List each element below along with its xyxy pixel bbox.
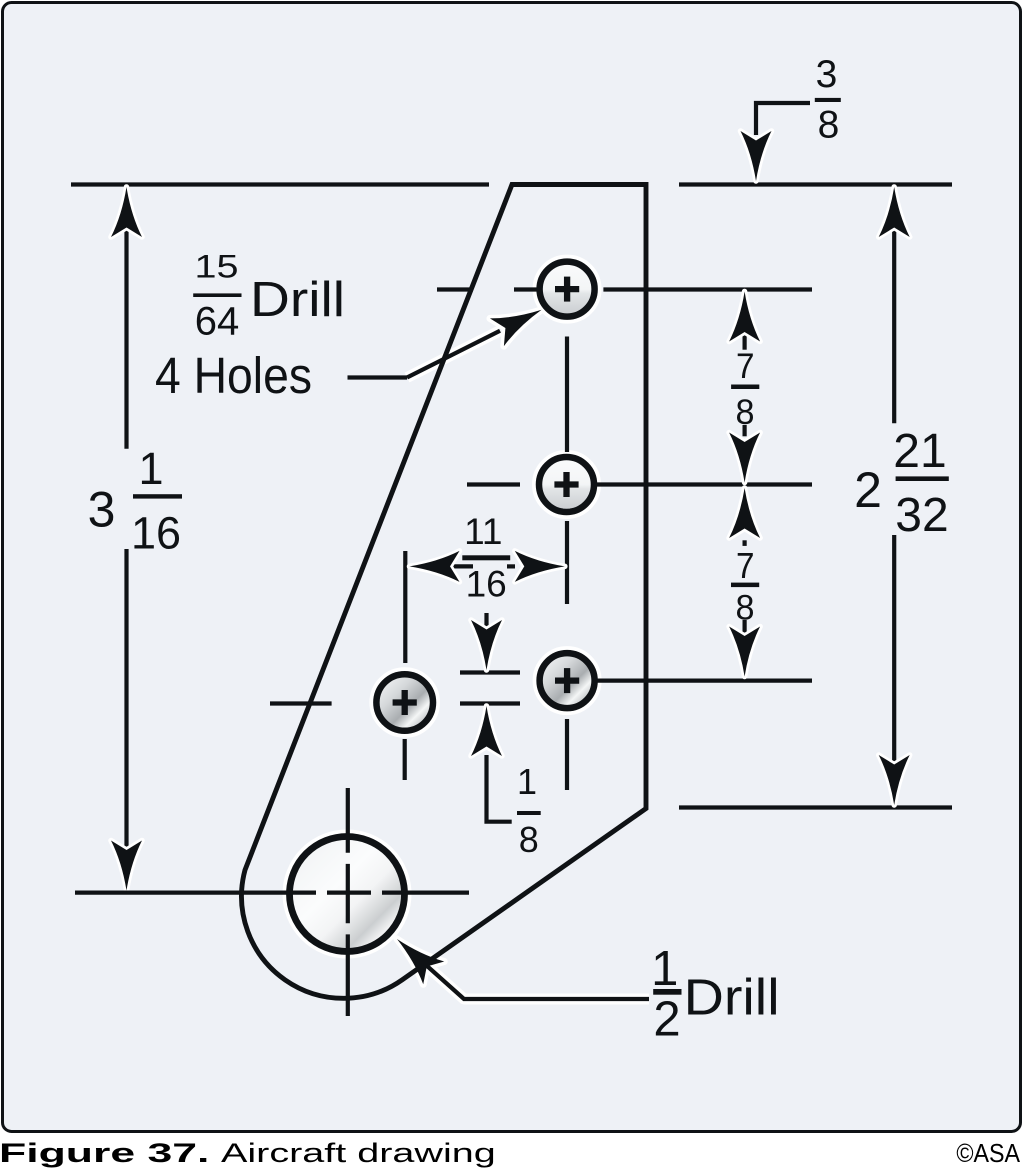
svg-text:3: 3: [816, 53, 838, 96]
svg-text:Aircraft drawing: Aircraft drawing: [221, 1138, 496, 1168]
white halo casings: [290, 262, 650, 999]
svg-text:2: 2: [854, 462, 882, 518]
svg-text:©ASA: ©ASA: [956, 1140, 1020, 1168]
top-right reference line: [679, 182, 952, 186]
hole 4 crosshair: [393, 690, 417, 715]
big hole centerlines (dashed crosshair): [75, 788, 469, 1016]
7/8 lower dim tails: [742, 540, 746, 546]
svg-text:2: 2: [653, 993, 680, 1047]
hole4 lower vertical centerline: [403, 739, 407, 780]
arrow 11/16 left: [410, 551, 460, 582]
arrow 1/8 down (points at upper bar): [471, 620, 502, 670]
3/8 leader: [756, 103, 810, 135]
top-left reference line: [71, 182, 489, 186]
arrow 3 1/16 top (up): [111, 187, 142, 237]
svg-text:3: 3: [88, 481, 116, 537]
svg-text:7: 7: [736, 347, 755, 386]
hole 4: [376, 674, 433, 731]
hole 3: [540, 653, 595, 708]
svg-text:16: 16: [466, 564, 507, 605]
part outline: [242, 185, 646, 999]
arrowheads: [111, 131, 910, 984]
arrow 3 1/16 bottom (down): [111, 841, 142, 891]
svg-text:8: 8: [818, 104, 840, 147]
arrow 3/8 leader (down): [741, 131, 772, 181]
svg-text:11: 11: [464, 511, 502, 552]
hole1 horizontal centerline: [437, 287, 473, 291]
hole4 upper vertical centerline / 11-16 extension: [403, 551, 407, 663]
right dimension line 2 21/32: [892, 188, 896, 423]
arrow 7/8 upper down: [729, 433, 760, 483]
hole2-hole3 vertical centerline: [565, 521, 569, 604]
hole 1 crosshair: [555, 277, 579, 302]
arrow 1/8 up (points at lower bar): [471, 706, 502, 756]
svg-text:21: 21: [893, 425, 946, 478]
1/2 Drill leader polyline: [420, 960, 649, 999]
arrow 7/8 upper up: [729, 292, 760, 342]
4 Holes leader dash: [348, 375, 408, 379]
4 Holes leader diagonal: [407, 331, 500, 378]
hole 1: [540, 262, 595, 317]
svg-text:32: 32: [895, 489, 948, 542]
7/8 upper dim tails: [742, 333, 746, 350]
arrow 1/2 Drill leader: [386, 928, 444, 985]
hole3 horizontal centerline: [597, 678, 812, 682]
bottom-right reference line: [679, 805, 952, 809]
svg-text:64: 64: [195, 300, 240, 344]
arrow 2 21/32 top (up): [879, 187, 910, 237]
hole 2: [539, 457, 594, 512]
hole 2 crosshair: [554, 472, 578, 497]
left dimension line 3 1/16: [124, 188, 128, 449]
hole4 horizontal centerline tick across slant edge: [270, 701, 332, 705]
caption Figure 37: [0, 1138, 209, 1168]
svg-text:15: 15: [195, 249, 239, 285]
1/8 upper arrow tail: [484, 613, 488, 632]
arrowhead white casings: [111, 131, 910, 891]
text labels: [193, 249, 345, 344]
11/16 arrow tails: [451, 564, 474, 568]
svg-text:7: 7: [736, 545, 755, 586]
arrow 7/8 lower up: [729, 488, 760, 538]
hole3 lower vertical centerline: [565, 719, 569, 790]
svg-text:1: 1: [138, 443, 163, 494]
arrow 4 Holes leader: [490, 296, 549, 346]
arrow 11/16 right: [515, 551, 565, 582]
1/8 upper bar: [460, 670, 520, 674]
arrow 2 21/32 bottom (down): [879, 755, 910, 805]
svg-text:8: 8: [736, 393, 755, 432]
svg-text:8: 8: [519, 819, 539, 860]
svg-text:Drill: Drill: [684, 969, 780, 1026]
svg-text:1: 1: [517, 761, 537, 802]
svg-text:8: 8: [736, 588, 755, 627]
copyright ASA: [956, 1140, 1020, 1168]
hole2 horizontal centerline: [467, 482, 520, 486]
big hole 1/2 drill: [290, 837, 405, 952]
1/8 lower bar: [460, 701, 520, 705]
hole 3 crosshair: [555, 668, 579, 693]
svg-text:Figure 37.: Figure 37.: [0, 1138, 209, 1168]
svg-text:1: 1: [651, 942, 678, 996]
svg-text:16: 16: [131, 507, 181, 558]
1/8 lower arrow tail and elbow: [487, 755, 512, 822]
svg-text:4 Holes: 4 Holes: [155, 348, 312, 405]
arrow 7/8 lower down: [729, 627, 760, 677]
hole1-hole2 vertical centerline: [565, 337, 569, 453]
svg-text:Drill: Drill: [250, 273, 345, 327]
